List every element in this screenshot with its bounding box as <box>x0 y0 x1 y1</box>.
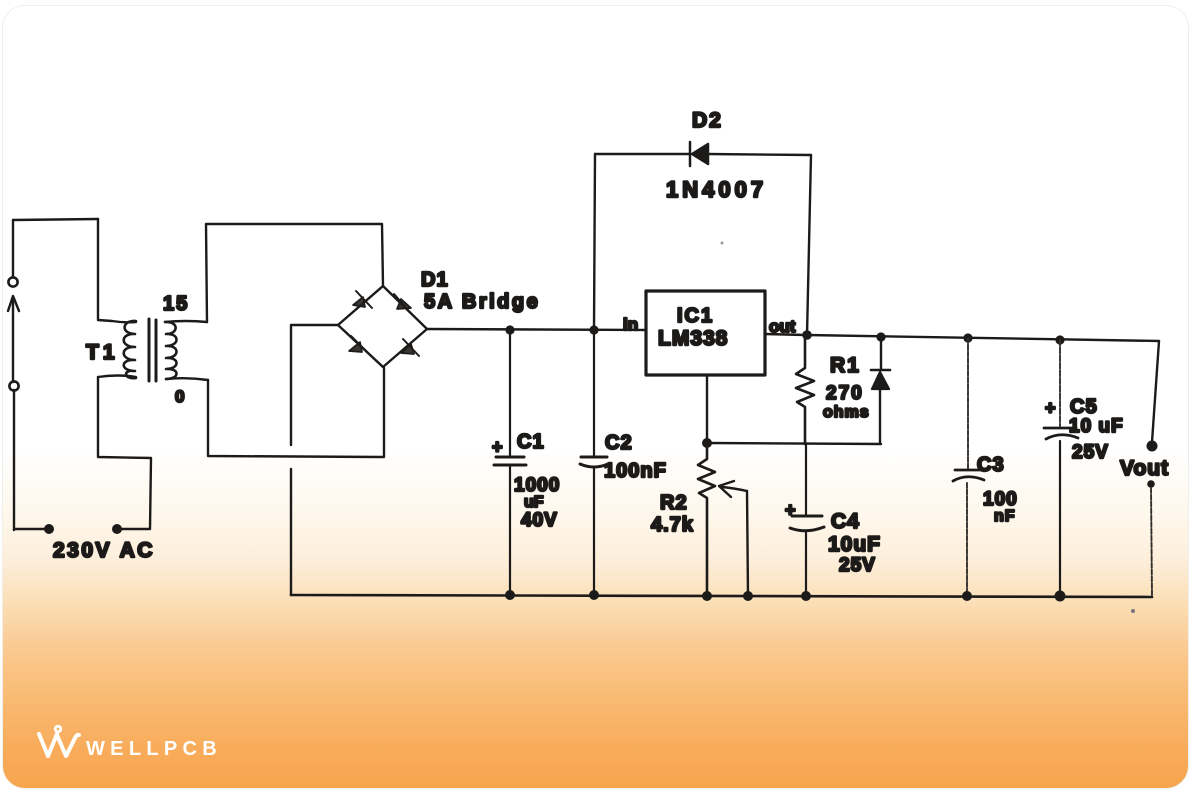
potentiometer R2 wiper arrow <box>719 481 748 596</box>
capacitor C4 plates <box>790 516 824 531</box>
wire bridge positive to input rail <box>427 329 646 330</box>
svg-text:D1: D1 <box>421 269 449 291</box>
node input rail / C2 + D2 junction <box>589 325 598 334</box>
wire IC1 adj pin down <box>706 375 708 443</box>
wire AC source left vertical lower <box>13 390 15 530</box>
bridge diode top-left <box>353 291 372 308</box>
node ground C1 <box>505 590 515 600</box>
svg-text:1000: 1000 <box>514 475 560 496</box>
node C5 junction on output rail <box>1055 335 1064 344</box>
wire bridge negative to ground rail (hops over crossing wire) <box>291 325 338 595</box>
capacitor C5 wire upper <box>1059 340 1061 426</box>
wire ground rail <box>291 595 1152 597</box>
node out junction <box>802 330 812 340</box>
capacitor C4 wire lower <box>805 531 807 596</box>
wire secondary-0 lead <box>166 378 208 380</box>
svg-text:10 uF: 10 uF <box>1069 416 1124 437</box>
wire secondary-15 riser and top run to bridge <box>206 224 383 322</box>
svg-text:R2: R2 <box>660 492 688 514</box>
diode D2 symbol <box>690 142 708 166</box>
capacitor C1 wire lower <box>509 466 511 595</box>
wire secondary-0 down and across to bridge bottom <box>208 368 384 457</box>
wire AC bottom left to plug dot <box>14 529 48 530</box>
svg-text:25V: 25V <box>1072 442 1109 463</box>
svg-text:5A Bridge: 5A Bridge <box>424 291 540 313</box>
diode across R1 (cathode up) <box>871 337 890 444</box>
svg-text:Vout: Vout <box>1120 457 1169 480</box>
wire top-left horizontal from AC source to primary <box>13 219 98 220</box>
svg-text:+: + <box>785 500 796 520</box>
svg-text:T1: T1 <box>86 341 119 364</box>
wire secondary top lead to riser <box>165 321 207 322</box>
node ground R2 wiper <box>743 591 753 601</box>
svg-text:1N4007: 1N4007 <box>666 177 767 202</box>
svg-text:230V AC: 230V AC <box>53 539 155 562</box>
svg-text:C3: C3 <box>977 454 1005 476</box>
svg-text:in: in <box>623 315 638 334</box>
svg-text:LM338: LM338 <box>658 327 728 350</box>
svg-text:C1: C1 <box>517 431 545 453</box>
capacitor C3 wire upper <box>967 338 969 469</box>
svg-text:100nF: 100nF <box>604 460 667 482</box>
node ground C3 <box>962 591 972 601</box>
svg-text:100: 100 <box>983 489 1018 510</box>
wire primary top lead <box>98 219 136 322</box>
WellPCB logo mark <box>39 726 79 756</box>
svg-text:D2: D2 <box>692 109 723 132</box>
diode bridge D1 diamond <box>338 286 427 367</box>
svg-text:C2: C2 <box>605 432 633 454</box>
bridge diode top-right <box>394 294 411 310</box>
svg-text:uF: uF <box>524 494 544 511</box>
svg-text:25V: 25V <box>839 555 876 576</box>
svg-text:+: + <box>1045 398 1056 418</box>
capacitor C2 plates <box>580 457 608 467</box>
capacitor C1 wire upper <box>509 330 511 455</box>
wire primary bottom lead <box>98 376 136 378</box>
AC source terminal circle lower <box>9 381 18 390</box>
node input rail / C1 junction <box>505 325 514 334</box>
capacitor C3 wire lower <box>966 483 968 596</box>
wire output rail corner down to Vout plus terminal <box>1152 341 1159 442</box>
svg-text:40V: 40V <box>521 510 558 531</box>
plug junction dot left <box>44 524 54 534</box>
node ground R2 <box>702 591 712 601</box>
transformer T1 secondary winding <box>165 322 177 379</box>
svg-text:10uF: 10uF <box>828 533 881 556</box>
node Vout minus terminal <box>1147 480 1155 488</box>
svg-text:4.7k: 4.7k <box>651 514 694 536</box>
node adj junction <box>702 438 712 448</box>
wire plug to primary-return riser <box>98 377 151 529</box>
wire IC1 out pin to out node <box>765 334 806 335</box>
svg-text:IC1: IC1 <box>677 305 714 327</box>
op-amp IC1 regulator box <box>646 291 765 375</box>
svg-text:WELLPCB: WELLPCB <box>86 738 222 760</box>
svg-text:270: 270 <box>826 383 864 404</box>
plug junction dot right <box>112 524 122 534</box>
svg-text:nF: nF <box>994 508 1016 525</box>
svg-text:R1: R1 <box>830 354 861 377</box>
svg-text:15: 15 <box>163 293 189 315</box>
AC source terminal circle upper <box>8 277 17 286</box>
wire D2 top run <box>595 154 811 155</box>
capacitor C2 wire upper <box>593 330 595 456</box>
resistor R1 <box>796 335 814 444</box>
svg-text:ohms: ohms <box>823 404 870 421</box>
svg-text:0: 0 <box>175 387 184 406</box>
capacitor C4 wire upper <box>805 444 807 514</box>
node protection-diode junction on output rail <box>876 332 885 341</box>
transformer T1 primary winding <box>124 321 136 378</box>
node C3 junction on output rail <box>963 333 972 342</box>
svg-text:C5: C5 <box>1070 396 1098 418</box>
node ground C2 <box>589 590 599 600</box>
node ground C4 <box>801 591 811 601</box>
wire Vout minus down to ground rail <box>1151 488 1152 596</box>
svg-text:+: + <box>492 437 503 457</box>
capacitor C5 wire lower <box>1059 441 1061 596</box>
wire AC source left vertical upper <box>12 220 14 277</box>
bridge diode bottom-left <box>349 336 367 352</box>
wire adj feedback run to R1 and diode <box>707 443 881 444</box>
stray ink speck near D2 <box>721 242 724 245</box>
wire D2 right riser to out node <box>807 155 811 335</box>
potentiometer R2 <box>698 443 715 596</box>
wire output rail <box>807 335 1159 341</box>
stray ink speck below ground rail <box>1131 609 1135 613</box>
node ground C5 <box>1055 591 1066 602</box>
capacitor C3 plates <box>953 470 984 481</box>
capacitor C2 wire lower <box>593 467 595 595</box>
transformer T1 core <box>149 319 156 381</box>
AC source arrow between terminals <box>8 296 19 382</box>
svg-text:C4: C4 <box>831 510 860 533</box>
node Vout plus terminal <box>1147 441 1158 452</box>
capacitor C1 plates <box>494 457 526 465</box>
capacitor C5 plates <box>1044 428 1078 439</box>
wire D2 left riser <box>594 154 595 330</box>
bridge diode bottom-right <box>401 339 419 356</box>
